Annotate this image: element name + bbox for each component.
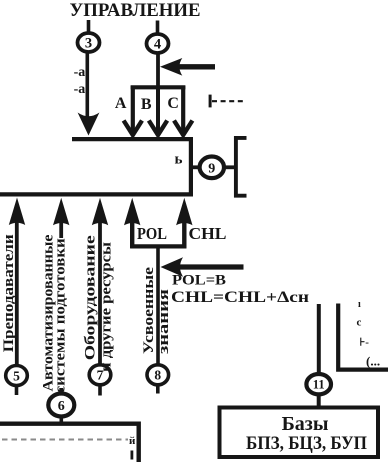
svg-text:3: 3 — [85, 36, 92, 52]
svg-text:POL=B: POL=B — [172, 273, 226, 289]
svg-text:8: 8 — [154, 368, 161, 383]
svg-text:-а: -а — [74, 82, 86, 97]
svg-text:11: 11 — [313, 378, 325, 392]
svg-text:CHL=CHL+Δсн: CHL=CHL+Δсн — [171, 289, 309, 306]
svg-text:ь: ь — [175, 152, 183, 168]
svg-text:CHL: CHL — [189, 224, 227, 243]
svg-text:POL: POL — [137, 224, 167, 243]
svg-text:ı: ı — [358, 299, 361, 310]
svg-text:Оборудование: Оборудование — [83, 235, 99, 360]
svg-text:системы подготовки: системы подготовки — [53, 238, 69, 393]
svg-text:и другие ресурсы: и другие ресурсы — [99, 242, 115, 372]
svg-text:4: 4 — [154, 37, 161, 53]
svg-text:знания: знания — [156, 289, 172, 354]
svg-text:-а: -а — [74, 65, 86, 80]
svg-text:УПРАВЛЕНИЕ: УПРАВЛЕНИЕ — [70, 0, 201, 21]
svg-text:6: 6 — [58, 399, 65, 414]
svg-text:й: й — [129, 435, 136, 447]
svg-text:B: B — [141, 96, 152, 113]
svg-text:A: A — [115, 95, 127, 112]
svg-text:Базы: Базы — [282, 413, 329, 435]
svg-text:БПЗ, БЦЗ, БУП: БПЗ, БЦЗ, БУП — [246, 433, 367, 454]
svg-text:с: с — [357, 317, 362, 329]
svg-text:Преподаватели: Преподаватели — [1, 234, 17, 352]
svg-text:Усвоенные: Усвоенные — [141, 267, 157, 354]
svg-text:5: 5 — [13, 368, 20, 383]
svg-text:⊦-: ⊦- — [360, 337, 370, 349]
svg-text:(...: (... — [366, 354, 380, 369]
svg-text:9: 9 — [208, 161, 215, 176]
svg-text:C: C — [167, 95, 179, 112]
